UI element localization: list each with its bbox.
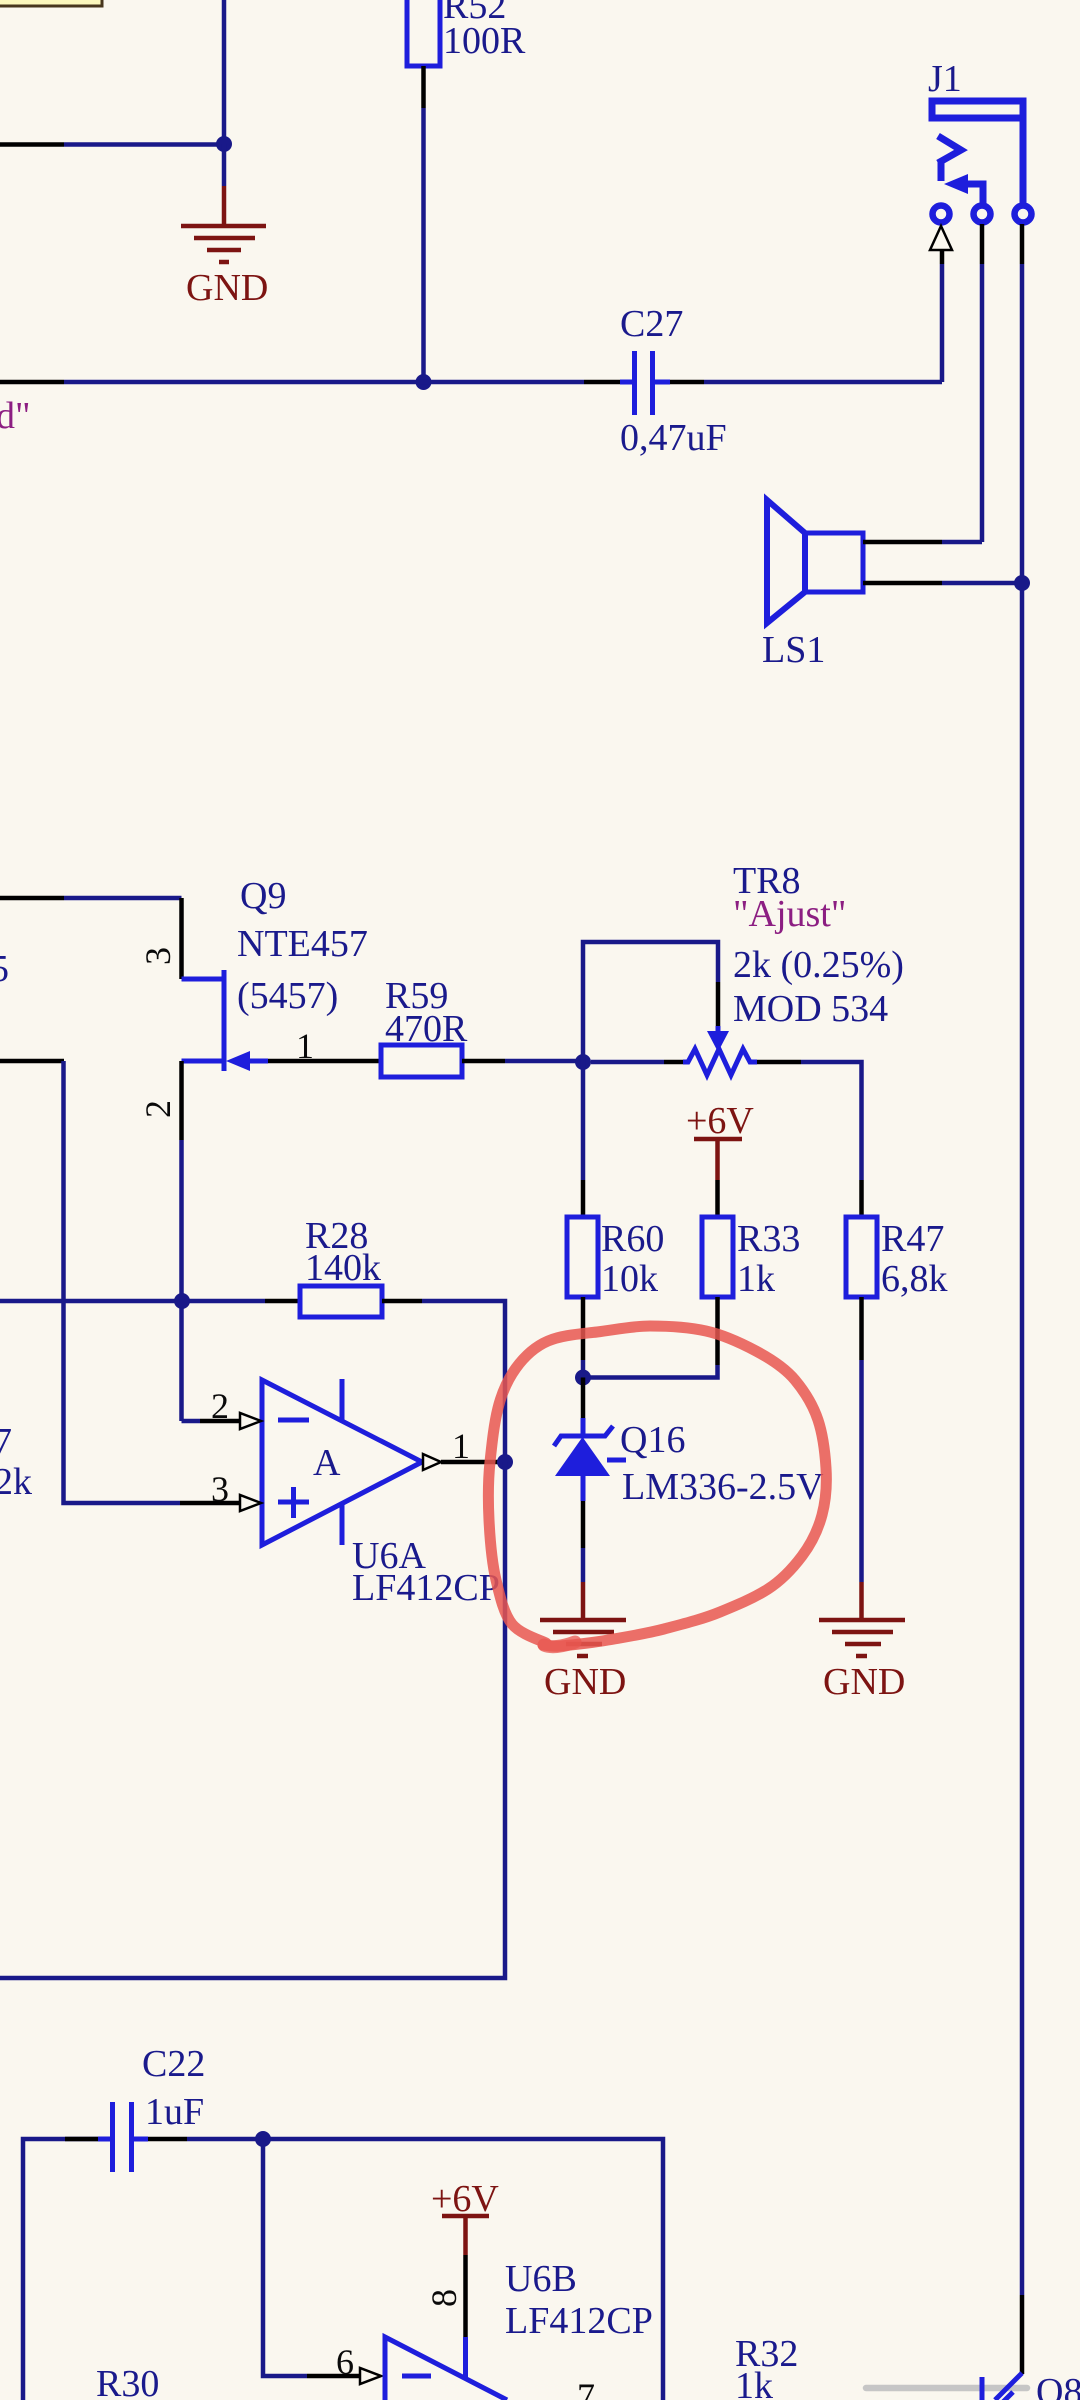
transistor Q9 [182, 875, 368, 1071]
pin label 3 (U6A) [211, 1469, 229, 1509]
node label fragment (left edge, 5) [0, 948, 9, 990]
pin label 1 (U6A output) [452, 1426, 470, 1466]
wire: LS1 bottom terminal [863, 581, 1022, 586]
svg-text:Q8: Q8 [1036, 2371, 1080, 2400]
svg-text:3: 3 [211, 1469, 229, 1509]
svg-text:LM336-2.5V: LM336-2.5V [622, 1466, 824, 1508]
node junction on bus wire [416, 374, 432, 390]
capacitor C27 [620, 303, 727, 459]
svg-text:LF412CP: LF412CP [505, 2300, 653, 2342]
resistor R32 labels [735, 2333, 798, 2400]
wire: TR8 junction down to R60 [581, 1062, 586, 1217]
resistor R33 [702, 1217, 800, 1300]
svg-text:6,8k: 6,8k [881, 1258, 948, 1300]
svg-text:LF412CP: LF412CP [352, 1567, 500, 1609]
resistor R47 [846, 1217, 948, 1300]
capacitor C22 [98, 2043, 205, 2172]
net label fragment d" (left edge) [0, 395, 31, 437]
op-amp U6A [262, 1379, 500, 1609]
speaker LS1 [762, 500, 863, 671]
wire: R28 right to feedback vertical [382, 1301, 505, 1462]
svg-text:+6V: +6V [431, 2178, 499, 2220]
svg-text:6: 6 [336, 2342, 354, 2382]
node junction TR8 left [575, 1054, 591, 1070]
svg-text:R60: R60 [601, 1218, 664, 1260]
resistor R60 [567, 1217, 664, 1300]
svg-text:A: A [313, 1442, 341, 1484]
wire: J1 pin3 long right-side vertical [1020, 224, 1025, 2295]
wire: Q9 source down to inverting input net [179, 1061, 184, 1421]
svg-text:GND: GND [544, 1661, 626, 1703]
svg-text:LS1: LS1 [762, 629, 825, 671]
wire: LS1 top terminal [863, 540, 982, 545]
svg-text:R30: R30 [96, 2363, 159, 2400]
wire: Q9 drain net from left [0, 898, 182, 979]
node junction at right bus [1014, 575, 1030, 591]
wire: TR8 wiper loop (up and over) [583, 942, 718, 1062]
ground GND (under Q16) [540, 1582, 626, 1703]
wire: long horizontal bus at y=382 [0, 380, 942, 385]
svg-text:2: 2 [211, 1386, 229, 1426]
power +6V (bottom) [431, 2178, 499, 2255]
wire: C22 left leg down [23, 2139, 98, 2400]
wire: right bus into Q8 [1020, 2295, 1025, 2374]
pin marker (U6A output arrow) [423, 1454, 441, 1470]
svg-text:C27: C27 [620, 303, 683, 345]
svg-text:C22: C22 [142, 2043, 205, 2085]
svg-text:NTE457: NTE457 [237, 923, 368, 965]
wire: U6A output to feedback node [441, 1460, 505, 1465]
wire: R52 bottom pin [421, 66, 426, 382]
wire: vertical net into GND node [222, 0, 227, 144]
pin label 8 (U6B) [424, 2289, 464, 2307]
pin label 3 (Q9) [138, 947, 178, 965]
svg-text:8: 8 [424, 2289, 464, 2307]
highlight line (gray) [866, 2385, 1027, 2392]
diode Q16 (LM336-2.5V reference) [554, 1378, 824, 1509]
svg-text:U6B: U6B [505, 2258, 577, 2300]
wire: Q9 gate to R59 [268, 1059, 381, 1064]
node junction at C22 net [255, 2131, 271, 2147]
pin marker (U6A pin3 arrow) [240, 1495, 261, 1511]
svg-text:2k (0.25%): 2k (0.25%) [733, 944, 904, 986]
svg-text:Q9: Q9 [240, 875, 286, 917]
node junction at GND net [216, 136, 232, 152]
svg-text:27: 27 [0, 1421, 12, 1463]
svg-text:R47: R47 [881, 1218, 944, 1260]
transistor Q8 (partial) [982, 2371, 1080, 2400]
connector J1 (jack) [928, 58, 1032, 223]
pin label 1 (Q9 gate) [296, 1026, 314, 1066]
svg-text:2k: 2k [0, 1461, 32, 1503]
svg-text:140k: 140k [305, 1247, 381, 1289]
node label fragment (left edge, 27) [0, 1421, 12, 1463]
wire: TR8 right to R47 column [801, 1062, 862, 1217]
svg-text:(5457): (5457) [237, 975, 338, 1017]
svg-text:3: 3 [138, 947, 178, 965]
svg-text:0,47uF: 0,47uF [620, 417, 727, 459]
svg-text:2: 2 [138, 1100, 178, 1118]
svg-text:GND: GND [823, 1661, 905, 1703]
resistor R52 [407, 0, 526, 66]
wire: C22 right to U6B net [148, 2139, 663, 2400]
wire: J1 pin2 down to speaker [980, 224, 985, 542]
wire: inverting input (pin 2) [182, 1419, 241, 1424]
svg-text:1k: 1k [737, 1258, 775, 1300]
svg-text:1uF: 1uF [145, 2091, 204, 2133]
svg-text:10k: 10k [601, 1258, 658, 1300]
node: off-page arrow under J1 pin1 [930, 226, 952, 250]
wire: non-inverting input net from left [0, 1061, 240, 1503]
svg-text:d": d" [0, 395, 31, 437]
op-amp U6B [385, 2258, 653, 2400]
ground GND (top) [181, 144, 268, 309]
svg-text:J1: J1 [928, 58, 962, 100]
resistor R59 [381, 975, 468, 1077]
svg-text:R33: R33 [737, 1218, 800, 1260]
pin marker (U6B pin6 arrow) [360, 2368, 381, 2384]
wire: +6V to U6B pin 8 [463, 2255, 468, 2380]
wire: down to U6B pin 6 [263, 2139, 360, 2376]
power +6V (middle) [686, 1100, 754, 1217]
pin label 6 (U6B) [336, 2342, 354, 2382]
ground GND (right, under R47) [819, 1582, 905, 1703]
wire: horizontal into GND node (off-page stub black) [0, 142, 224, 147]
svg-text:Q16: Q16 [620, 1419, 685, 1461]
pin marker (U6A pin2 arrow) [240, 1413, 261, 1429]
svg-text:100R: 100R [443, 20, 526, 62]
wire: C27 right to J1 tip [940, 250, 945, 382]
svg-text:7: 7 [577, 2376, 595, 2400]
svg-text:470R: 470R [385, 1008, 468, 1050]
resistor R28 [300, 1215, 382, 1317]
wire: R33 bottom over to reference node [583, 1297, 718, 1378]
pin label 7 (U6B output) [577, 2376, 595, 2400]
wire: R60 bottom to reference node [581, 1297, 586, 1377]
potentiometer TR8 [591, 860, 904, 1075]
svg-text:+6V: +6V [686, 1100, 754, 1142]
node junction at inverting net [174, 1293, 190, 1309]
pin label 2 (U6A) [211, 1386, 229, 1426]
node junction at U6A output [497, 1454, 513, 1470]
svg-text:MOD 534: MOD 534 [733, 988, 888, 1030]
resistor R30 label [96, 2363, 159, 2400]
note box (yellow sticky, top-left) [0, 0, 102, 6]
wire: R47 bottom to ground [859, 1297, 864, 1582]
svg-text:"Ajust": "Ajust" [733, 893, 846, 935]
wire: R59 to TR8 junction [462, 1059, 583, 1064]
pin label 2 (Q9) [138, 1100, 178, 1118]
svg-text:1k: 1k [735, 2365, 773, 2400]
node label fragment (left edge, 2k) [0, 1461, 32, 1503]
svg-text:5: 5 [0, 948, 9, 990]
node junction above Q16 [575, 1370, 591, 1386]
wire: feedback loop down and left [0, 1462, 505, 1978]
annotation: red hand-drawn circle around Q16 [488, 1326, 826, 1647]
wire: R28 input net horizontal [0, 1299, 300, 1304]
svg-text:GND: GND [186, 267, 268, 309]
wire: Q16 anode to ground [581, 1501, 586, 1582]
